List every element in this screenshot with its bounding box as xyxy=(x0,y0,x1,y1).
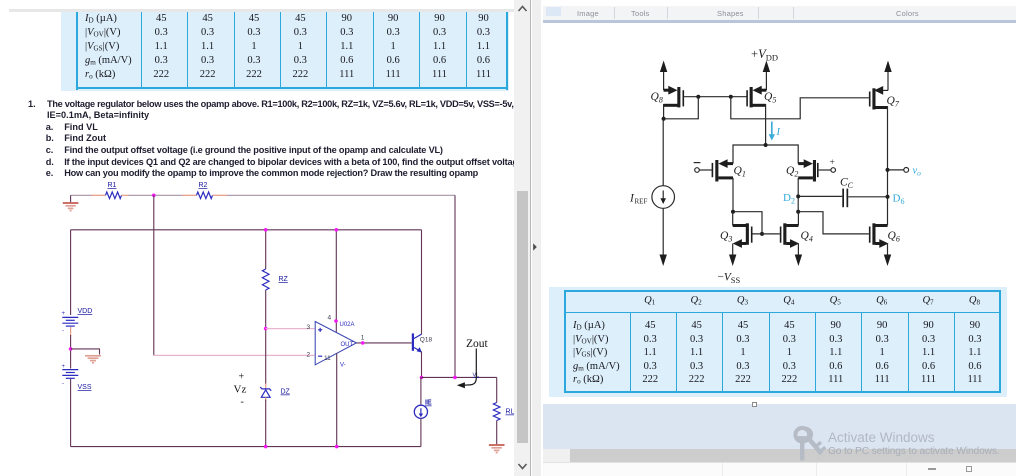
wire: bottom rail xyxy=(71,446,421,448)
transistor Q1 xyxy=(712,159,746,181)
wire: pin2 input (pink) xyxy=(154,354,315,356)
transistor Q6 xyxy=(869,223,900,266)
wire: pin4 V+ column xyxy=(335,230,337,333)
wire: VDD rail y=230 xyxy=(71,229,422,231)
svg-text:vo: vo xyxy=(913,166,922,178)
svg-text:Q3: Q3 xyxy=(720,230,732,244)
wire: Q18 collector xyxy=(421,230,423,334)
right table borders xyxy=(564,290,1001,292)
page top edge line xyxy=(9,9,515,12)
wire: between batteries xyxy=(70,327,72,336)
wire: second stage gate xyxy=(798,212,869,234)
status bar xyxy=(543,462,1016,476)
node RZ top on rail xyxy=(264,228,268,232)
svg-text:Q1: Q1 xyxy=(734,165,746,179)
ribbon strip xyxy=(543,6,1016,20)
node mirror gate xyxy=(760,232,764,236)
battery VSS xyxy=(62,364,92,391)
wire: to mid ground xyxy=(71,349,100,355)
node gate rail a xyxy=(696,95,700,99)
wire: Q18 emitter down xyxy=(421,352,423,378)
node D6 xyxy=(886,193,905,207)
wire: IREF column xyxy=(662,119,664,186)
transistor Q7 xyxy=(869,86,900,110)
wire: Q8 diode connection xyxy=(664,97,699,119)
wire: Q3 diode connect jog xyxy=(733,212,762,234)
transistor Q4 xyxy=(780,212,813,266)
svg-text:CC: CC xyxy=(840,177,854,191)
input terminal minus xyxy=(694,163,712,173)
wire: D2 to Cc xyxy=(798,195,842,197)
battery VDD xyxy=(62,308,93,335)
node tail xyxy=(764,143,768,147)
left scrollbar xyxy=(514,0,531,476)
label Vz xyxy=(234,372,247,408)
svg-text:I: I xyxy=(776,127,781,138)
wire: Q1 drain down xyxy=(732,178,734,212)
wire: mirror gate rail xyxy=(752,233,779,235)
node Q1-Q3 xyxy=(731,210,735,214)
node battery midpoint xyxy=(69,347,73,351)
node gate rail b xyxy=(729,95,733,99)
wire/arrow: IREF to VSS xyxy=(660,208,667,266)
node pin1 xyxy=(361,341,365,345)
capacitor Cc xyxy=(840,177,854,208)
current source IREF xyxy=(629,186,675,209)
wire: RL to ground xyxy=(496,421,498,445)
zener diode DZ xyxy=(260,384,290,402)
wire: gate jog to Q7 xyxy=(731,97,869,119)
VDD arrow above Q8 xyxy=(660,61,667,91)
node pin11 bottom rail xyxy=(335,445,339,449)
current source IE xyxy=(414,377,432,446)
wire: pin11 V- column xyxy=(336,353,338,446)
wire: tail rail xyxy=(733,145,798,164)
current label I (cyan arrow) xyxy=(769,122,781,141)
svg-text:Q8: Q8 xyxy=(651,91,663,105)
node zener bottom rail xyxy=(264,445,268,449)
svg-text:D6: D6 xyxy=(893,193,905,207)
activate windows watermark xyxy=(780,419,846,472)
wire: Cc to D6 xyxy=(848,196,887,198)
paint lower background xyxy=(543,404,1016,449)
wire: opamp output xyxy=(356,342,411,344)
node feedback tap xyxy=(453,376,457,380)
svg-text:+VDD: +VDD xyxy=(751,47,778,63)
svg-text:D2: D2 xyxy=(783,192,795,206)
wire: Q8 gate rail to Q5 xyxy=(684,96,747,98)
right table background xyxy=(549,287,1007,397)
transistor Q8 xyxy=(651,86,685,119)
node pin4 at opamp xyxy=(334,319,338,323)
VDD arrow above Q5 xyxy=(763,61,770,91)
transistor Q18 xyxy=(412,333,433,352)
svg-text:+: + xyxy=(830,158,835,168)
Zout probe arrow xyxy=(457,349,477,389)
node vo xyxy=(886,168,890,172)
transistor Q3 xyxy=(720,212,753,266)
svg-text:REF: REF xyxy=(635,198,648,206)
left table background xyxy=(61,12,509,91)
svg-text:Q4: Q4 xyxy=(801,230,813,244)
ground G1 (mid) xyxy=(85,356,101,363)
horizontal scrollbar of right window xyxy=(543,449,1016,462)
resistor R2 xyxy=(182,182,227,199)
ground G2 (RL) xyxy=(489,445,505,453)
wire: feedback right vertical xyxy=(454,195,456,377)
wire: Q5 drain to tail xyxy=(765,104,767,145)
node output junction xyxy=(420,376,424,380)
left table rows xyxy=(0,0,1024,1)
wire: left rail to bottom xyxy=(70,379,72,447)
wire: RZ column top xyxy=(265,230,267,269)
VDD arrow above Q7 xyxy=(884,61,891,91)
problem text xyxy=(0,0,1024,1)
node R1-R2 junction xyxy=(152,194,156,198)
op-amp U02A xyxy=(307,315,365,369)
node Q2-Q4 xyxy=(796,210,800,214)
svg-text:Q6: Q6 xyxy=(888,230,900,244)
wire: left rail down xyxy=(70,230,72,315)
wire: junction down to inverting input xyxy=(153,195,155,355)
wire: top feedback rail y=195 xyxy=(71,194,455,196)
transistor Q5 xyxy=(746,86,776,108)
node pin4 on rail xyxy=(335,228,339,232)
svg-text:Q5: Q5 xyxy=(764,91,776,105)
wire: zener to bottom rail xyxy=(265,400,267,447)
wire: RZ to zener xyxy=(265,290,267,384)
wire: output column xyxy=(887,106,889,226)
input terminal plus xyxy=(819,158,836,172)
transistor Q2 xyxy=(786,159,819,181)
wire: pin3 input (pink) xyxy=(266,328,315,330)
canvas resize handle xyxy=(752,402,757,407)
wire: RL column xyxy=(496,377,498,402)
svg-text:Q2: Q2 xyxy=(786,165,798,179)
output terminal vo xyxy=(888,166,922,178)
resistor R1 xyxy=(91,182,129,199)
node D2 xyxy=(783,192,800,206)
ground G0 at top-left xyxy=(63,195,79,210)
svg-text:−VSS: −VSS xyxy=(718,272,741,286)
svg-text:Q7: Q7 xyxy=(887,95,900,109)
node Q8 drain xyxy=(662,117,666,121)
divider between windows xyxy=(530,0,531,476)
resistor RL xyxy=(493,403,514,421)
left table borders xyxy=(76,12,78,90)
resistor RZ xyxy=(262,269,288,290)
wire: Q2 drain down xyxy=(797,178,799,212)
node pin3 branch xyxy=(264,327,268,331)
wire: output row xyxy=(422,376,497,378)
